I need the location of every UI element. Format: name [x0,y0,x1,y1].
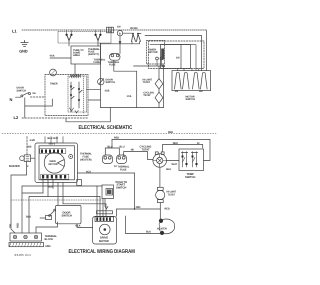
wire divider [136,71,138,107]
heater terminal 1 [65,30,72,46]
connector block small [77,179,82,185]
wire left vertical bus [100,44,102,108]
wire timer bottom lead 3 [52,179,54,188]
svg-text:4GA: 4GA [50,54,55,57]
wire dashed crossover [11,199,102,201]
svg-text:FUSE: FUSE [94,61,101,64]
fuse F1 on L1 line [107,27,114,33]
label drive motor [99,237,109,243]
wire door switch top [57,182,59,205]
drive motor assembly [93,216,117,244]
temp switch box [179,149,204,171]
svg-text:SWITCH: SWITCH [186,98,196,101]
hi-limit thermostat wiring [156,187,165,202]
hi-limit thermostat diamond [155,66,163,89]
svg-text:L2: L2 [14,115,19,120]
label thermal fuse lower [94,58,106,64]
svg-text:3M: 3M [199,90,202,93]
wire timer top leads [45,136,63,143]
svg-text:4-5R: 4-5R [30,139,35,142]
svg-text:2: 2 [27,165,29,168]
svg-text:YEL: YEL [9,223,12,228]
label thermal fuse second [114,165,130,171]
label cycling tstat schematic [143,91,154,97]
motor divider [180,45,182,69]
svg-text:5A: 5A [33,92,36,95]
svg-text:SWITCH: SWITCH [61,215,71,218]
motor dashed box [149,41,205,69]
label door switch box [61,211,71,217]
timer assembly inner box [39,146,75,180]
svg-text:MOTOR: MOTOR [149,51,158,54]
heater assembly [159,219,174,235]
svg-text:BLU: BLU [107,146,112,149]
svg-text:GND: GND [19,49,28,53]
svg-text:4AB: 4AB [26,145,31,148]
timer arrows [70,108,79,113]
wire L1 top line [22,29,207,31]
node 3rd junction [134,208,136,210]
svg-text:AREA: AREA [73,54,80,57]
terminal block bracket [9,242,44,246]
thermostat control box [71,46,101,64]
timer top terminal strip [40,149,66,154]
svg-text:TSTAT: TSTAT [143,94,151,97]
label door switch schematic [106,78,116,84]
label thermal fuse safety [88,48,100,56]
svg-text:TSTAT: TSTAT [143,81,151,84]
wire block bottom edge [101,106,164,108]
svg-text:BLU: BLU [26,216,31,219]
svg-text:ELECTRICAL SCHEMATIC: ELECTRICAL SCHEMATIC [79,125,133,131]
wire control box to timer stub [74,64,76,74]
svg-text:FUSE: FUSE [109,63,116,66]
motor start contacts 4M 5M [130,27,141,41]
label hi-limit tstat schematic [143,78,153,84]
svg-text:TSTAT: TSTAT [141,148,149,151]
svg-text:63405 214: 63405 214 [14,253,31,257]
label temp switch [185,173,195,179]
node junction at heater feed [100,43,102,45]
push to start switch box [102,185,114,199]
wire contacts right [138,33,141,35]
wire hi-limit to heater [159,203,161,220]
svg-text:FUSE: FUSE [120,168,127,171]
wire N line [31,96,46,98]
timer assembly outer case [35,143,78,183]
motor winding leads [178,69,199,71]
wire 3rd to heater [116,208,160,210]
label timer leads [26,137,58,149]
heater terminal 2 [94,30,101,46]
svg-text:ELECTRICAL WIRING DIAGRAM: ELECTRICAL WIRING DIAGRAM [68,249,135,255]
svg-text:RED: RED [173,142,178,145]
wire into control box left [50,57,71,59]
svg-text:4CA: 4CA [86,170,91,173]
wire timer bottom lead 2 [47,179,49,196]
timer motor dashed box schematic [147,41,165,65]
motor inner rect [161,45,191,69]
heating element dashed box [58,31,111,43]
wire motor feed [63,182,106,216]
label motor switch [186,96,196,102]
timer cam [70,74,81,77]
timer motor circle [50,69,57,76]
wire nested corner 3 [150,45,196,71]
wire red hook [111,140,113,149]
wire heater left blk [125,216,160,234]
wire terminal drop 2 [21,186,23,233]
wire fuse jumper blu [105,148,119,155]
door switch contact [40,209,56,219]
wire coil to contacts [123,32,132,34]
svg-text:BLK: BLK [146,231,151,234]
svg-text:RED: RED [16,223,19,228]
label cycling tstat [139,146,151,152]
svg-text:2M: 2M [175,90,178,93]
svg-text:(SAFETY): (SAFETY) [88,53,99,56]
wire timer bottom lead 1 [42,179,44,193]
svg-text:SWITCH: SWITCH [106,81,116,84]
wire fuse to cycling tstat [124,152,153,160]
svg-text:RED: RED [114,137,119,140]
svg-text:BLK: BLK [166,168,171,171]
svg-text:GRN: GRN [45,245,51,248]
svg-text:B: B [119,32,121,35]
svg-text:L1: L1 [12,28,17,33]
svg-text:MOTOR: MOTOR [99,240,109,243]
wire push start right drop [133,173,135,209]
svg-text:4CB: 4CB [105,89,110,92]
timer inner dashed box [68,76,87,112]
door switch box [55,205,81,223]
svg-text:4B: 4B [130,149,133,152]
wire buzzer bottom [11,161,27,233]
wire timer inner to bus [87,88,101,90]
svg-text:N: N [10,97,13,102]
label timer motor [149,49,158,55]
thermal fuse TF1 schematic [110,44,121,60]
wire block right edge [163,66,165,108]
cycling thermostat [153,152,167,167]
timer dashed box [45,74,88,115]
label thermal fuse schematic [108,61,120,67]
timer aux contact circle [69,154,73,158]
wire buzzer top [26,136,28,154]
svg-text:BLOCK: BLOCK [44,238,53,241]
wire cycling bottom [159,167,161,187]
cycling thermostat diamond [155,89,163,108]
terminal block [10,233,42,241]
wire N to timer [25,99,53,106]
wire terminal link mid [22,192,43,194]
temp switch contacts [181,152,197,168]
motor internal switch bar [161,49,164,60]
label tube to dome [73,49,84,57]
svg-text:SWITCH: SWITCH [185,176,195,179]
label push to start [115,181,127,190]
svg-text:BLU: BLU [119,145,124,148]
svg-text:RED: RED [168,131,173,134]
svg-text:BLK W-R: BLK W-R [48,137,59,140]
wire drive motor lead [97,186,100,216]
svg-text:HEATER: HEATER [157,227,167,230]
svg-text:4M 5M: 4M 5M [130,27,137,30]
wire terminal link 3 [29,196,100,233]
buzzer BZ1 [20,155,31,162]
wire contacts legs [132,42,140,44]
wire L2 line [22,117,88,119]
ground GND [19,40,28,53]
timer motor terminals [156,57,163,66]
svg-text:BUZZER: BUZZER [9,165,20,168]
svg-text:1M: 1M [117,26,120,29]
wire nested corner 2 [145,36,202,71]
label main motor [48,160,57,166]
label door switch N [17,87,36,96]
svg-text:3RD: 3RD [135,206,140,209]
label timer [50,82,58,85]
wire block top edge [134,65,164,67]
svg-text:TSTAT: TSTAT [167,193,175,196]
wire timer to push start [77,172,134,174]
svg-text:WHT: WHT [171,163,177,166]
wire cycling right [166,160,179,162]
wire cycling top [162,145,202,152]
separator dotted line [2,132,216,134]
timer bottom terminal strip [41,174,69,179]
thermal fuse heater cup [102,155,112,164]
svg-text:TIMER: TIMER [50,82,58,85]
timer contact chain 2 [78,82,82,108]
svg-text:45A-3: 45A-3 [48,143,55,146]
motor start winding [175,72,190,89]
wire heater feed bus [101,43,140,45]
svg-text:BLK: BLK [75,225,80,228]
svg-text:SWITCH: SWITCH [17,89,27,92]
svg-text:1M: 1M [176,57,179,60]
door switch schematic [98,78,104,84]
wire terminal block right feed [36,222,58,233]
svg-text:RED: RED [164,208,169,211]
wire door to motor blk [77,224,93,228]
wire L1 drop right [206,30,208,71]
wire L2 return under timer [66,107,110,121]
drive motor cable clamp [96,211,112,214]
timer contact chain 1 [70,82,74,112]
wire N drop [24,98,26,118]
node top right [163,65,165,67]
wire red feed long [112,139,210,160]
wire divider top [114,60,137,71]
wire push start bottom [105,199,108,209]
svg-text:1CA: 1CA [127,95,132,98]
svg-text:MOTOR: MOTOR [48,163,57,166]
svg-text:(HEATER): (HEATER) [80,158,92,161]
motor relay coil B [117,26,123,36]
thermal fuse second cup [116,155,126,164]
wire buzzer to timer [31,157,35,159]
wire coil down [119,36,121,44]
svg-text:SWITCH: SWITCH [116,187,126,190]
motor main winding [193,72,208,89]
label thermal fuse heater [80,152,92,161]
motor winding box [172,71,211,91]
wire drive motor right to 3rd [115,209,117,216]
main motor circle [44,152,65,173]
wire long bus [22,185,102,187]
label hi-limit [166,191,176,197]
timer dashed cam shaft [83,76,85,114]
door switch N contact [16,93,31,98]
label terminal block [44,235,57,241]
wire push start lead [102,198,104,216]
wire timer to bus [88,99,101,101]
